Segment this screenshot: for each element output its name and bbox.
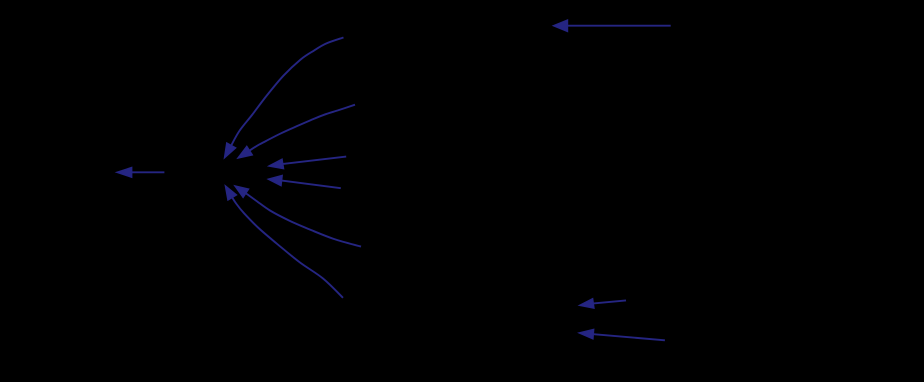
edge A9: bottom-right upper wire with arrowhead	[579, 298, 626, 308]
edge A4: straight wire from third node into hub with arrowhead	[268, 157, 346, 169]
edge A5: straight wire from fourth node into hub with arrowhead	[268, 175, 341, 188]
edge A10: bottom-right lower wire with arrowhead	[579, 329, 665, 340]
edge A2: long curved wire from top node into hub with arrowhead	[224, 38, 343, 159]
edge A7: curved wire from bottom node into hub with arrowhead	[225, 185, 343, 297]
edge A3: curved wire from second node into hub with arrowhead	[238, 105, 356, 159]
edge A1: top-right horizontal wire with left arrowhead	[553, 20, 671, 32]
edge A6: curved wire from lower node into hub with arrowhead	[234, 186, 361, 247]
edge A8: wire from hub to left node with arrowhead	[116, 167, 164, 177]
